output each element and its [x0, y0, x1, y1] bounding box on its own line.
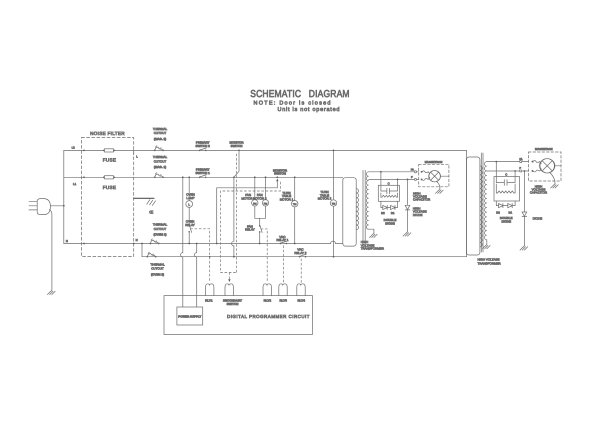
wire magnetron to ground (oven 2): [550, 172, 556, 184]
wire fan relay to N: [259, 232, 261, 244]
transformer T1 core: [363, 170, 365, 247]
svg-text:SWITCH: SWITCH: [227, 302, 239, 306]
magnetron tube (oven 2): [540, 159, 554, 173]
relay coil RLY3: [279, 284, 287, 296]
ground (HV diode oven 1): [403, 232, 411, 236]
magnetron (oven 2) box: [529, 152, 562, 181]
wire T2 secondary to ground: [486, 240, 488, 245]
high voltage transformer T2 primary: [467, 157, 480, 255]
plug P1 (AC power plug): [29, 199, 50, 215]
svg-text:LAMP: LAMP: [186, 196, 194, 200]
svg-text:TRANSFORMER: TRANSFORMER: [361, 246, 385, 250]
door linkage (monitor switch, dashed): [236, 154, 238, 273]
wire L2 drop to transformer T2: [466, 150, 468, 256]
svg-text:CAPACITOR: CAPACITOR: [530, 191, 548, 195]
wire bus L2: [64, 149, 467, 151]
high voltage diode (oven 1): [407, 179, 409, 232]
magnetron tube (oven 1): [429, 171, 440, 182]
svg-text:SCHEMATIC DIAGRAM: SCHEMATIC DIAGRAM: [250, 89, 349, 100]
junction plug/vertical: [63, 205, 65, 207]
relay linkage RLY4 (dashed): [300, 259, 302, 283]
short switch (door sensing): [217, 182, 278, 244]
fan motor FM1: [254, 177, 256, 199]
junction dots noise filter: [83, 150, 85, 152]
svg-text:N: N: [66, 239, 68, 243]
high voltage capacitor C (oven 1): [381, 172, 398, 186]
oven lamp L: [188, 177, 190, 200]
svg-text:(OVEN 1): (OVEN 1): [153, 233, 166, 237]
svg-text:MAGNETRON: MAGNETRON: [425, 161, 443, 164]
high voltage diode (oven 2): [523, 171, 525, 246]
fuse F2 (L1): [103, 176, 115, 179]
wire monitor switch to N2 (hop over N): [232, 177, 234, 256]
svg-text:CUTOUT: CUTOUT: [154, 227, 167, 231]
thermal cutout (OVEN 2) on N2: [146, 252, 156, 257]
wire magnetron to ground (oven 1): [437, 182, 440, 190]
transformer T2 core: [481, 153, 483, 252]
wire T2 secondary FA to magnetron: [487, 161, 529, 163]
svg-text:RELAY: RELAY: [185, 223, 195, 227]
svg-text:TM: TM: [293, 203, 296, 206]
fan relay contact RLY2: [259, 225, 262, 233]
ground (HV diode oven 2): [520, 246, 528, 250]
svg-text:(MAG. 2): (MAG. 2): [154, 137, 166, 141]
svg-text:RLY1: RLY1: [205, 298, 213, 302]
svg-text:TRANSFORMER: TRANSFORMER: [478, 262, 502, 266]
primary switch 1 on L1: [199, 175, 207, 178]
transformer T2 secondary: [484, 162, 486, 240]
magnetron (oven 1) box: [419, 164, 449, 187]
svg-text:TM: TM: [332, 202, 335, 205]
relay coil RLY1: [206, 284, 214, 296]
svg-text:RELAY: RELAY: [245, 228, 255, 232]
svg-text:C: C: [388, 181, 390, 185]
svg-text:SWITCH 2: SWITCH 2: [196, 144, 211, 148]
title: [250, 89, 349, 100]
svg-text:MOTOR 2: MOTOR 2: [318, 197, 332, 201]
ground (noise filter case): [134, 197, 154, 199]
svg-text:(OVEN 2): (OVEN 2): [151, 272, 164, 276]
svg-text:D1: D1: [391, 211, 395, 215]
power supply box: [177, 307, 203, 325]
svg-text:SWITCH: SWITCH: [274, 172, 286, 176]
svg-text:L2: L2: [72, 146, 76, 150]
monitor switch between L2 and L1: [238, 150, 240, 152]
svg-text:DIGITAL PROGRAMMER CIRCUIT: DIGITAL PROGRAMMER CIRCUIT: [227, 314, 310, 319]
relay linkage RLY2 (dashed): [261, 229, 267, 283]
thermal cutout (OVEN 1) on N: [149, 239, 159, 244]
oven relay contact RLY1: [188, 208, 190, 226]
svg-text:(MAG. 1): (MAG. 1): [154, 165, 166, 169]
turntable motor TM2: [333, 150, 335, 256]
primary switch 2 on L2: [199, 148, 207, 151]
wire bus L1: [64, 176, 343, 178]
thermal cutout (MAG.2) on L2: [154, 146, 164, 151]
high voltage capacitor C (oven 2): [496, 162, 515, 177]
fuse F1 (L2): [103, 149, 115, 152]
door linkage (short switch, dashed): [221, 182, 281, 280]
digital programmer circuit box: [164, 296, 312, 335]
svg-text:RLY2: RLY2: [264, 298, 272, 302]
double diode D2 D1 (oven 2): [496, 201, 515, 206]
svg-text:FM: FM: [264, 202, 267, 205]
svg-text:CUTOUT: CUTOUT: [154, 131, 167, 135]
wire plug earth lead: [50, 209, 52, 290]
wire bus N (oven 2): [142, 256, 467, 258]
magnetron terminals FA/F (oven 1): [414, 171, 416, 173]
wire N branch to oven-2 neutral: [141, 244, 143, 257]
svg-text:L1: L1: [73, 182, 77, 186]
svg-text:RELAY 2: RELAY 2: [294, 251, 306, 255]
wire T2 secondary F to magnetron: [487, 170, 529, 172]
magnetron terminals FA/F (oven 2): [520, 161, 522, 163]
relay linkage RLY3 (dashed): [282, 246, 284, 283]
high voltage transformer T1 primary: [343, 178, 356, 246]
svg-text:N: N: [136, 238, 138, 242]
double diode D2 D1 (oven 1): [381, 201, 398, 207]
wire L1 to power supply (feed 1): [181, 177, 183, 307]
svg-text:MAGNETRON: MAGNETRON: [535, 148, 553, 151]
svg-text:D1: D1: [509, 210, 513, 214]
svg-text:CUTOUT: CUTOUT: [151, 267, 164, 271]
svg-text:MOTOR 2: MOTOR 2: [253, 196, 267, 200]
wire bus N (oven 1) with hop over turntable motor 2 lead: [64, 241, 343, 243]
svg-text:FUSE: FUSE: [103, 185, 116, 190]
svg-text:DIODE: DIODE: [501, 220, 511, 224]
wire relay to N: [188, 232, 190, 244]
svg-text:FUSE: FUSE: [103, 158, 116, 163]
svg-text:POWER SUPPLY: POWER SUPPLY: [178, 315, 201, 319]
secondary switch coil: [225, 284, 233, 296]
svg-text:DIODE: DIODE: [385, 221, 395, 225]
wire N to power supply (feed 2): [195, 244, 197, 308]
svg-text:RLY3: RLY3: [279, 298, 287, 302]
svg-text:NOTE: Door is closed: NOTE: Door is closed: [254, 100, 332, 106]
wire plug to mains vertical: [51, 205, 64, 207]
svg-text:FA: FA: [411, 168, 414, 171]
svg-text:Œ: Œ: [149, 209, 153, 214]
magnetron filament (oven 1): [422, 171, 430, 180]
wire mains vertical: [63, 150, 65, 243]
node L (filter output): [133, 150, 135, 154]
relay coil RLY2: [263, 284, 271, 296]
ground (T1 secondary): [370, 233, 378, 237]
relay coil RLY4: [297, 284, 305, 296]
relay linkage RLY1 (dashed): [191, 229, 210, 283]
svg-text:SWITCH 1: SWITCH 1: [196, 171, 211, 175]
svg-text:MOTOR 1: MOTOR 1: [280, 197, 294, 201]
svg-text:CAPACITOR: CAPACITOR: [413, 198, 431, 202]
ground (magnetron oven 2): [551, 184, 559, 188]
noise filter box: [82, 138, 134, 257]
VRC relay 2 contact on N2: [299, 254, 307, 257]
fan motor FM2: [265, 177, 267, 199]
svg-text:D2: D2: [381, 211, 385, 215]
wire fan motors merge: [255, 207, 266, 227]
svg-text:FM: FM: [253, 202, 256, 205]
transformer T1 secondary: [366, 172, 368, 229]
svg-text:DIODE: DIODE: [413, 213, 423, 217]
VRC relay 1 contact on N: [280, 241, 288, 244]
wire T1 secondary F to magnetron: [369, 178, 419, 180]
svg-text:Unit is not operated: Unit is not operated: [278, 107, 341, 113]
svg-text:FA: FA: [519, 158, 522, 161]
turntable motor TM1: [294, 177, 296, 243]
thermal cutout (MAG.1) on L1: [154, 173, 164, 178]
svg-text:C: C: [505, 173, 507, 177]
svg-text:CUTOUT: CUTOUT: [154, 159, 167, 163]
ground (T2 secondary): [482, 245, 490, 249]
svg-text:RLY4: RLY4: [297, 298, 305, 302]
svg-text:NOISE FILTER: NOISE FILTER: [90, 131, 125, 136]
ground (magnetron oven 1): [436, 189, 444, 193]
wire T1 secondary to ground: [369, 229, 374, 233]
magnetron filament (oven 2): [533, 161, 542, 172]
svg-text:SWITCH: SWITCH: [231, 144, 243, 148]
ground (plug earth): [48, 290, 56, 294]
svg-text:DIODE: DIODE: [533, 216, 543, 220]
svg-text:D2: D2: [496, 210, 500, 214]
svg-text:RELAY 1: RELAY 1: [276, 238, 288, 242]
wire T1 secondary FA to magnetron: [369, 171, 419, 173]
